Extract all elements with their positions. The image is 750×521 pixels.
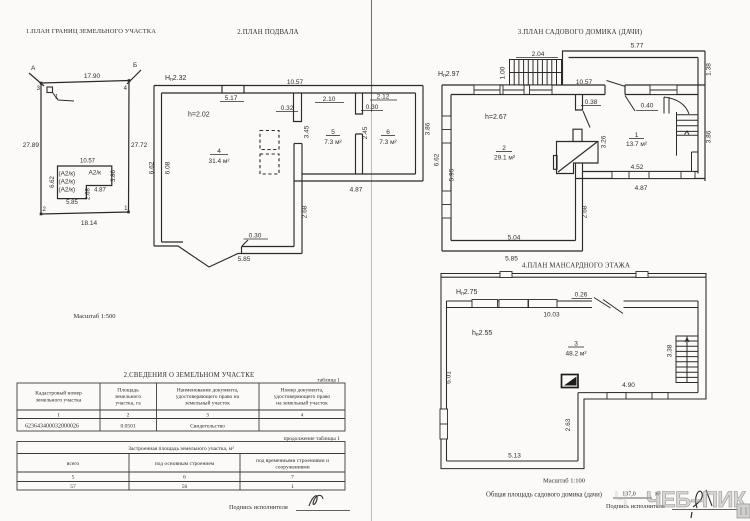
svg-text:4: 4 (217, 148, 221, 155)
house inner top wall right part (625, 94, 698, 96)
svg-text:3.86: 3.86 (706, 130, 713, 143)
svg-text:1.ПЛАН ГРАНИЦ ЗЕМЕЛЬНОГО УЧАСТ: 1.ПЛАН ГРАНИЦ ЗЕМЕЛЬНОГО УЧАСТКА (26, 28, 156, 35)
room1 door leaf (625, 96, 635, 112)
svg-text:Наименование документа,: Наименование документа, (177, 388, 239, 394)
attic knee wall top line2 (447, 307, 699, 309)
svg-text:земельного: земельного (115, 394, 142, 400)
svg-text:2: 2 (502, 145, 506, 152)
attic roofline window marks (500, 272, 512, 278)
svg-text:h=2.67: h=2.67 (485, 114, 507, 121)
window left wall lower (442, 191, 451, 218)
building footprint outline (58, 166, 112, 199)
house inner right wall (697, 58, 699, 174)
stove side box (554, 156, 558, 170)
svg-text:Номер документа,: Номер документа, (281, 388, 324, 394)
house outer right wall (704, 51, 706, 181)
svg-text:27.72: 27.72 (131, 142, 148, 149)
basement mid vertical wall east line (301, 144, 303, 254)
basement lower wall of rooms 5-6 inner (302, 173, 416, 175)
basement entry hatch window (222, 86, 244, 94)
svg-text:3: 3 (206, 413, 209, 419)
svg-text:7: 7 (291, 475, 294, 481)
attic inner left wall (446, 301, 448, 461)
svg-text:Подпись исполнителя: Подпись исполнителя (229, 504, 288, 511)
svg-text:5: 5 (331, 129, 335, 136)
svg-text:Общая площадь садового домика: Общая площадь садового домика (дачи) (486, 492, 602, 499)
svg-text:4: 4 (301, 413, 304, 419)
svg-text:10.57: 10.57 (576, 79, 593, 86)
table2 row lines (17, 471, 345, 473)
svg-text:0.30: 0.30 (366, 104, 379, 111)
basement outer left wall (153, 86, 155, 247)
window left wall upper (442, 116, 451, 143)
svg-text:5: 5 (72, 475, 75, 481)
window under porch 2 (530, 85, 553, 95)
svg-text:Масштаб 1:500: Масштаб 1:500 (73, 313, 115, 320)
svg-text:6: 6 (183, 475, 186, 481)
svg-text:4.87: 4.87 (94, 188, 106, 194)
svg-text:Нп2.97: Нп2.97 (438, 71, 460, 79)
page fold line (371, 0, 373, 521)
basement lower wall of rooms 5-6 outer (294, 180, 423, 182)
svg-text:5.77: 5.77 (631, 43, 644, 50)
svg-text:1.38: 1.38 (706, 63, 713, 76)
partition stub rooms 1/2 (576, 95, 583, 111)
basement bottom wall inner (162, 241, 184, 243)
chimney rect (573, 129, 582, 141)
svg-text:0.0501: 0.0501 (120, 424, 135, 430)
svg-text:2.ПЛАН ПОДВАЛА: 2.ПЛАН ПОДВАЛА (237, 29, 299, 36)
svg-text:hп2.55: hп2.55 (472, 330, 492, 338)
closet wall (691, 152, 693, 172)
step wall east line (582, 163, 584, 251)
corner tick A (29, 73, 44, 86)
svg-text:1: 1 (291, 484, 294, 490)
svg-text:земельного участка: земельного участка (36, 398, 82, 404)
attic stairs box (676, 336, 698, 383)
svg-text:1.00: 1.00 (500, 66, 507, 79)
basement mid wall top cap (294, 143, 302, 145)
roof opening slash 2 (603, 300, 623, 314)
vestibule top inner wall (569, 57, 699, 59)
table2 merged header line (17, 453, 345, 455)
svg-text:2.63: 2.63 (565, 418, 572, 431)
svg-text:4.90: 4.90 (622, 382, 635, 389)
svg-text:ЧЕБ–ПИК: ЧЕБ–ПИК (646, 487, 747, 512)
room2 bottom wall inner (451, 240, 576, 242)
window under porch (503, 85, 524, 95)
svg-text:(А2/к): (А2/к) (59, 179, 76, 186)
svg-text:А: А (31, 65, 36, 72)
stove body with diagonal (554, 142, 599, 174)
svg-text:29.1 м²: 29.1 м² (494, 155, 516, 162)
porch steps (510, 60, 562, 86)
house outer top wall left part (442, 84, 605, 86)
svg-text:земельный участок: земельный участок (185, 400, 230, 407)
window top-left wall (442, 85, 695, 218)
basement bay step (241, 247, 243, 254)
svg-text:5.95: 5.95 (449, 168, 456, 181)
svg-text:0.26: 0.26 (575, 292, 588, 299)
flue dashed box lower (260, 154, 279, 174)
attic knee wall top line1 (447, 300, 699, 302)
table2 column lines (128, 454, 130, 491)
svg-text:2.04: 2.04 (532, 51, 545, 58)
svg-text:27.89: 27.89 (23, 142, 40, 149)
svg-text:участка, га: участка, га (115, 401, 141, 407)
svg-text:(А2/к): (А2/к) (59, 187, 76, 194)
plot boundary rectangle (41, 81, 129, 215)
svg-text:7.3 м²: 7.3 м² (324, 139, 342, 146)
svg-text:3.86: 3.86 (111, 170, 117, 182)
table1 column lines (99, 383, 101, 431)
svg-text:удостоверяющего право: удостоверяющего право (274, 394, 331, 400)
basement bay leader line (242, 240, 248, 246)
signature flourish left (309, 495, 323, 506)
svg-text:57: 57 (70, 484, 76, 490)
svg-text:0.40: 0.40 (641, 103, 654, 110)
svg-text:Свидетельство: Свидетельство (190, 424, 225, 430)
svg-text:4.87: 4.87 (635, 185, 648, 192)
svg-text:17.90: 17.90 (84, 73, 101, 80)
svg-text:Застроенная площадь земельного: Застроенная площадь земельного участка, … (128, 446, 234, 452)
corner tick B (127, 70, 141, 84)
well leader line (53, 93, 75, 102)
attic stairs center rail (686, 336, 688, 383)
basement mid vertical wall west line (293, 144, 295, 247)
svg-text:Площадь: Площадь (117, 388, 139, 394)
svg-text:всего: всего (67, 461, 80, 467)
svg-text:10.57: 10.57 (80, 159, 96, 165)
room door leaf rooms1-2 (583, 111, 590, 128)
svg-text:13.7 м²: 13.7 м² (626, 141, 648, 148)
attic right-section bottom wall inner (578, 392, 698, 394)
svg-text:2: 2 (127, 413, 130, 419)
svg-text:48.2 м²: 48.2 м² (565, 351, 587, 358)
svg-text:1: 1 (635, 132, 639, 139)
svg-text:2.68: 2.68 (302, 205, 309, 218)
basement outer right wall (422, 86, 424, 182)
svg-text:56: 56 (182, 484, 188, 490)
svg-text:5.17: 5.17 (225, 95, 238, 102)
roof opening slash 1 (594, 298, 611, 309)
attic inner step wall (577, 393, 579, 461)
stairs winder walls (664, 97, 698, 172)
svg-text:4.87: 4.87 (350, 187, 363, 194)
vestibule top outer wall (563, 51, 706, 85)
corner dots (40, 79, 131, 215)
window room1 top (650, 85, 677, 95)
svg-text:3.45: 3.45 (304, 125, 311, 138)
svg-text:2.СВЕДЕНИЯ О ЗЕМЕЛЬНОМ УЧАСТКЕ: 2.СВЕДЕНИЯ О ЗЕМЕЛЬНОМ УЧАСТКЕ (124, 372, 255, 379)
corner stamp mark (737, 504, 750, 518)
basement bottom wall outer with bay (154, 246, 302, 267)
step wall west line (575, 163, 577, 241)
attic inner right wall (697, 301, 699, 393)
svg-text:10.03: 10.03 (543, 312, 560, 319)
stairs treads (677, 114, 698, 116)
house inner top wall left part (451, 94, 605, 96)
svg-text:2.68: 2.68 (86, 188, 92, 200)
svg-text:4.ПЛАН МАНСАРДНОГО ЭТАЖА: 4.ПЛАН МАНСАРДНОГО ЭТАЖА (522, 263, 630, 270)
svg-text:сооружениями: сооружениями (275, 465, 309, 471)
svg-text:под основным строением: под основным строением (155, 461, 215, 467)
house inner left wall (450, 95, 452, 241)
svg-text:4.52: 4.52 (631, 164, 644, 171)
signature flourish right (693, 491, 702, 508)
svg-text:2.12: 2.12 (377, 94, 390, 101)
svg-text:7.3 м²: 7.3 м² (379, 139, 397, 146)
attic outer top second line (441, 276, 706, 278)
svg-text:5.04: 5.04 (508, 235, 521, 242)
attic bottom-right windows (607, 393, 626, 399)
svg-text:на земельный участок: на земельный участок (276, 400, 328, 407)
house outer left wall (441, 85, 443, 251)
svg-text:6.08: 6.08 (165, 161, 172, 174)
svg-text:2.68: 2.68 (582, 205, 589, 218)
svg-text:2.45: 2.45 (362, 126, 369, 139)
attic stove symbol (562, 375, 579, 388)
svg-text:удостоверяющего право на: удостоверяющего право на (176, 394, 240, 400)
svg-text:18.14: 18.14 (81, 220, 98, 227)
basement inner top wall (162, 92, 416, 94)
basement inner right wall (415, 93, 417, 174)
svg-text:Кадастровый номер: Кадастровый номер (35, 390, 82, 397)
room2 bottom wall outer (442, 250, 583, 252)
svg-text:Масштаб 1:100: Масштаб 1:100 (543, 478, 585, 485)
table2 outer border (17, 442, 345, 491)
partition rooms 5/6 upper stub (356, 93, 363, 114)
svg-text:623643400032000026: 623643400032000026 (25, 424, 79, 430)
attic top windows (440, 272, 668, 440)
stairs stringer (676, 112, 678, 156)
basement inner left wall (161, 93, 163, 242)
room1 bottom wall outer (576, 178, 706, 180)
stairs winder arc (664, 97, 689, 114)
svg-text:3.38: 3.38 (667, 344, 674, 357)
svg-text:под временными строениями и: под временными строениями и (256, 458, 329, 464)
partition stub room4/5 (294, 93, 302, 122)
svg-text:6.01: 6.01 (446, 371, 453, 384)
basement outer top wall (154, 85, 423, 87)
stairs arrow mark (685, 131, 690, 135)
svg-text:продолжение таблицы 1: продолжение таблицы 1 (284, 435, 341, 442)
svg-text:5.13: 5.13 (508, 453, 521, 460)
attic inner bottom-left wall (447, 460, 579, 462)
svg-text:3.ПЛАН САДОВОГО ДОМИКА (ДАЧИ): 3.ПЛАН САДОВОГО ДОМИКА (ДАЧИ) (518, 29, 642, 36)
svg-text:(А2/к): (А2/к) (59, 171, 76, 178)
well square symbol (47, 87, 53, 93)
entrance door leaf (607, 81, 626, 87)
svg-text:А2/к: А2/к (89, 170, 102, 177)
svg-text:5.85: 5.85 (505, 256, 518, 263)
svg-text:1: 1 (57, 413, 60, 419)
svg-text:Б: Б (133, 62, 137, 69)
svg-text:h=2.02: h=2.02 (188, 112, 210, 119)
attic left wall window (440, 409, 448, 439)
svg-text:10.57: 10.57 (287, 79, 304, 86)
svg-text:0.32: 0.32 (281, 105, 294, 112)
svg-text:3.86: 3.86 (425, 122, 432, 135)
attic outer boundary (441, 274, 706, 469)
room1 bottom wall inner (583, 171, 699, 173)
page number mark (691, 512, 692, 518)
svg-text:таблица 1: таблица 1 (317, 377, 340, 384)
svg-text:Нп2.75: Нп2.75 (456, 289, 478, 297)
house outer top wall right part (625, 84, 705, 86)
table1 outer border (17, 383, 345, 431)
svg-text:Нп2.32: Нп2.32 (165, 75, 187, 83)
svg-text:6.62: 6.62 (50, 176, 56, 188)
svg-text:3.26: 3.26 (601, 135, 608, 148)
svg-text:Ч: Ч (614, 488, 628, 510)
top wall door jamb left (604, 85, 606, 95)
svg-text:6.62: 6.62 (149, 161, 156, 174)
svg-text:0.38: 0.38 (585, 99, 598, 106)
top wall door jamb right (624, 85, 626, 95)
svg-text:5.85: 5.85 (238, 256, 251, 263)
table1 row lines (17, 409, 345, 411)
svg-text:0.30: 0.30 (249, 233, 262, 240)
svg-text:3: 3 (574, 341, 578, 348)
svg-text:5.85: 5.85 (66, 200, 78, 206)
svg-text:31.4 м²: 31.4 м² (208, 158, 230, 165)
flue dashed box upper (260, 131, 279, 150)
windows room1 bottom band (612, 172, 695, 179)
partition rooms 5/6 lower segment (356, 134, 363, 174)
svg-text:6.62: 6.62 (434, 153, 441, 166)
svg-text:2.10: 2.10 (323, 96, 336, 103)
svg-text:6: 6 (386, 129, 390, 136)
